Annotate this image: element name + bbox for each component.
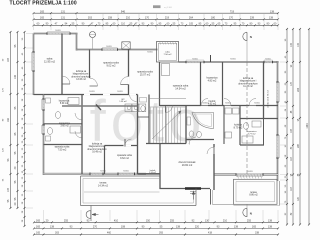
svg-text:219: 219 (165, 17, 170, 20)
svg-text:138: 138 (269, 17, 274, 20)
svg-text:131: 131 (61, 10, 66, 13)
svg-text:303: 303 (88, 17, 93, 20)
svg-text:4.63 m2: 4.63 m2 (208, 104, 217, 106)
svg-text:11.95 m2: 11.95 m2 (44, 60, 56, 64)
svg-text:11.73 m2: 11.73 m2 (243, 86, 253, 88)
svg-text:170: 170 (145, 17, 150, 20)
svg-text:kuhinja sa: kuhinja sa (243, 78, 254, 80)
svg-text:90/205: 90/205 (89, 91, 95, 93)
svg-text:138: 138 (50, 226, 55, 229)
svg-text:338: 338 (255, 232, 260, 235)
svg-text:90/205: 90/205 (117, 91, 123, 93)
svg-text:165: 165 (40, 17, 45, 20)
svg-text:TLOCRT PRIZEMLJA 1:100: TLOCRT PRIZEMLJA 1:100 (10, 1, 77, 7)
svg-text:180: 180 (211, 17, 216, 20)
svg-text:210: 210 (223, 220, 228, 223)
svg-text:15.07 m2: 15.07 m2 (140, 73, 151, 76)
svg-text:105: 105 (189, 23, 194, 26)
svg-text:8.79 m2: 8.79 m2 (234, 126, 243, 129)
svg-text:3.77 m2: 3.77 m2 (248, 134, 257, 136)
svg-text:210: 210 (126, 17, 131, 20)
svg-text:16.49 m2: 16.49 m2 (92, 152, 102, 154)
svg-text:165: 165 (36, 226, 41, 229)
svg-text:kupaonica: kupaonica (59, 101, 70, 103)
svg-text:138: 138 (270, 10, 275, 13)
svg-text:138: 138 (268, 220, 273, 223)
svg-text:14.54 m2: 14.54 m2 (175, 87, 186, 90)
svg-text:138: 138 (268, 226, 273, 229)
svg-text:410: 410 (114, 220, 119, 223)
svg-text:90/205: 90/205 (55, 30, 61, 32)
svg-text:946: 946 (121, 10, 126, 13)
svg-text:110: 110 (121, 23, 125, 26)
svg-text:9.02 m2: 9.02 m2 (106, 64, 116, 67)
svg-text:dnevnim boravkom: dnevnim boravkom (87, 148, 106, 151)
svg-text:zimski vrt 4.75 m2: zimski vrt 4.75 m2 (267, 89, 270, 107)
svg-text:blagovaonicom i: blagovaonicom i (89, 146, 106, 148)
svg-text:138: 138 (176, 226, 181, 229)
svg-text:foto: foto (90, 89, 207, 154)
svg-text:220: 220 (195, 226, 200, 229)
svg-text:3.60 m2: 3.60 m2 (60, 126, 69, 128)
svg-text:9.62 m2: 9.62 m2 (120, 157, 129, 160)
svg-text:5.60 m2: 5.60 m2 (60, 103, 69, 105)
svg-text:393: 393 (159, 232, 164, 235)
svg-text:165: 165 (36, 220, 41, 223)
svg-text:90/205: 90/205 (230, 58, 236, 60)
svg-text:162: 162 (7, 117, 10, 122)
svg-text:255: 255 (64, 220, 69, 223)
svg-text:303: 303 (55, 232, 60, 235)
svg-text:170: 170 (229, 17, 234, 20)
svg-text:13.33 m2: 13.33 m2 (76, 79, 86, 81)
svg-text:460: 460 (107, 232, 112, 235)
svg-text:1244: 1244 (307, 123, 309, 129)
svg-text:165: 165 (36, 232, 41, 235)
svg-text:165: 165 (252, 226, 257, 229)
svg-text:90/205: 90/205 (225, 102, 231, 104)
svg-text:7.50 m2: 7.50 m2 (58, 148, 67, 151)
svg-text:108: 108 (121, 226, 126, 229)
svg-text:255: 255 (247, 220, 252, 223)
svg-text:270: 270 (93, 226, 98, 229)
svg-text:hodnik: hodnik (209, 101, 217, 103)
svg-text:blagovaonicom i: blagovaonicom i (73, 74, 90, 76)
svg-text:4.83 m2: 4.83 m2 (208, 79, 217, 82)
svg-text:kupaonica: kupaonica (59, 123, 70, 125)
svg-text:8.86 m2: 8.86 m2 (249, 195, 258, 197)
svg-text:dnevnim boravkom: dnevnim boravkom (71, 75, 90, 78)
svg-text:N: N (250, 212, 252, 216)
svg-text:19.82 m2: 19.82 m2 (182, 164, 193, 167)
svg-text:100: 100 (14, 74, 17, 79)
svg-text:kuhinja sa: kuhinja sa (92, 144, 103, 146)
svg-text:150: 150 (146, 220, 151, 223)
svg-text:131: 131 (61, 17, 66, 20)
svg-text:blagovaonicom i: blagovaonicom i (240, 81, 257, 83)
svg-text:90/205: 90/205 (247, 171, 253, 173)
svg-text:418: 418 (208, 232, 213, 235)
svg-text:255: 255 (170, 220, 175, 223)
svg-text:1.98 m2: 1.98 m2 (119, 101, 127, 103)
svg-text:90/205: 90/205 (254, 102, 260, 104)
svg-text:264: 264 (189, 17, 194, 20)
svg-text:mj 1:100: mj 1:100 (164, 7, 173, 9)
svg-text:kuhinja sa: kuhinja sa (76, 71, 87, 73)
svg-text:90/205: 90/205 (123, 171, 129, 173)
svg-text:5.34 m2: 5.34 m2 (149, 172, 156, 174)
svg-text:terasa: terasa (250, 191, 257, 194)
svg-text:158: 158 (108, 17, 113, 20)
svg-text:187: 187 (7, 57, 10, 62)
svg-text:7.50 m2: 7.50 m2 (164, 54, 173, 56)
svg-text:N: N (250, 35, 252, 39)
svg-text:719: 719 (230, 10, 235, 13)
svg-text:107: 107 (7, 187, 10, 192)
svg-text:138: 138 (234, 226, 239, 229)
svg-text:165: 165 (40, 10, 45, 13)
svg-text:dnevnim boravkom: dnevnim boravkom (238, 82, 257, 85)
svg-text:90/205: 90/205 (147, 52, 153, 54)
svg-text:239: 239 (250, 17, 255, 20)
svg-text:14.34 m2: 14.34 m2 (98, 184, 109, 187)
